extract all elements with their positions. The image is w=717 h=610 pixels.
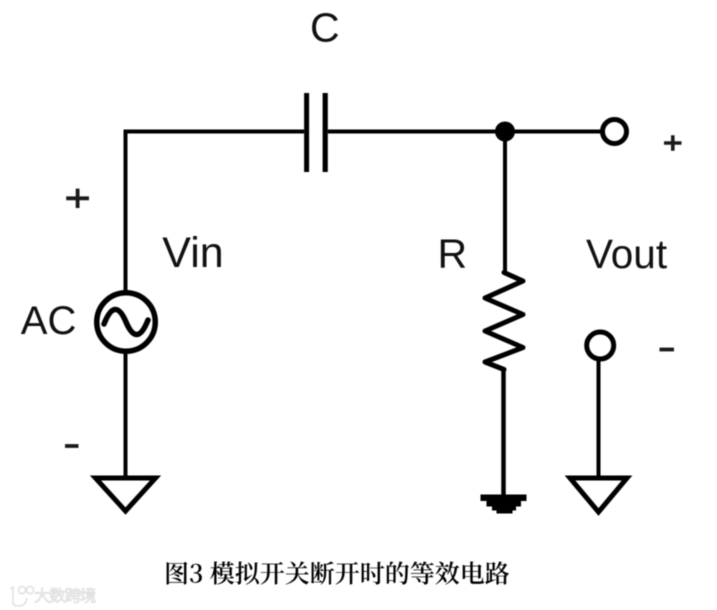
ground: open triangle under AC source <box>96 478 156 511</box>
label: plus sign at Vout + terminal <box>664 135 682 151</box>
wire: left vertical from top corner down to AC source top <box>124 130 128 293</box>
wire: vertical from node down to resistor <box>503 132 507 275</box>
ground: filled stepped ground under resistor <box>481 495 527 514</box>
wire: vertical from resistor down to signal ground <box>501 368 506 497</box>
capacitor C1: left plate <box>304 93 309 172</box>
wire: top horizontal, right segment from capacitor to output terminal <box>328 130 602 134</box>
AC source V1: circle <box>97 293 156 352</box>
terminal: Vout + output circle <box>603 120 627 144</box>
wire: top horizontal, left segment from corner to capacitor <box>124 130 305 134</box>
wire: vertical from Vout - terminal to ground <box>597 358 601 477</box>
svg-text:Vin: Vin <box>162 229 223 277</box>
svg-text:C: C <box>310 5 340 51</box>
resistor R1: zigzag <box>485 273 523 370</box>
watermark logo <box>10 586 34 606</box>
caption: 图3 模拟开关断开时的等效电路 <box>167 561 510 584</box>
label: minus sign at AC source bottom <box>65 444 79 448</box>
capacitor C1: right plate <box>323 93 328 172</box>
label: minus sign at Vout - terminal <box>660 348 675 352</box>
svg-text:R: R <box>438 231 468 277</box>
svg-text:Vout: Vout <box>586 231 667 277</box>
node: junction dot at top of resistor branch <box>495 122 515 142</box>
AC source V1: sine wave <box>104 309 148 334</box>
terminal: Vout - output circle <box>587 332 614 359</box>
ground: open triangle under Vout - terminal <box>570 478 627 512</box>
label: plus sign at AC source top <box>66 189 89 208</box>
watermark text 大数跨境 <box>35 588 96 603</box>
svg-text:AC: AC <box>21 299 77 343</box>
wire: left vertical from AC source bottom to ground <box>124 352 128 478</box>
